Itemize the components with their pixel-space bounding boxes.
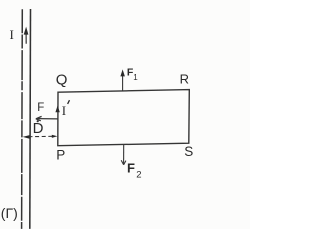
- force F1 arrow (up from QR): [120, 69, 125, 90]
- wire right line: [29, 9, 32, 229]
- loop rectangle PQRS: [58, 90, 190, 146]
- svg-text:D: D: [33, 120, 44, 137]
- svg-text:P: P: [56, 147, 65, 162]
- label F2: [127, 160, 141, 180]
- svg-text:2: 2: [136, 170, 141, 181]
- force F arrow (toward wire): [36, 116, 58, 120]
- svg-text:R: R: [180, 71, 189, 86]
- svg-text:S: S: [184, 144, 193, 159]
- ink dot above D: [37, 120, 39, 122]
- current I arrow on wire: [24, 27, 29, 44]
- svg-text:Q: Q: [56, 71, 68, 88]
- svg-text:(Γ): (Γ): [1, 205, 18, 221]
- svg-text:F: F: [127, 160, 135, 175]
- force F2 arrow (down from PS): [121, 144, 126, 165]
- label F1: [127, 67, 138, 82]
- wire left line: [21, 9, 24, 229]
- svg-text:I: I: [62, 103, 66, 118]
- current I' arrow on side PQ: [55, 106, 59, 113]
- svg-text:F: F: [37, 102, 44, 114]
- label I': [62, 100, 70, 118]
- svg-text:I: I: [10, 27, 14, 42]
- svg-text:1: 1: [133, 73, 138, 82]
- distance D dimension line (dashed, double arrow): [23, 135, 58, 139]
